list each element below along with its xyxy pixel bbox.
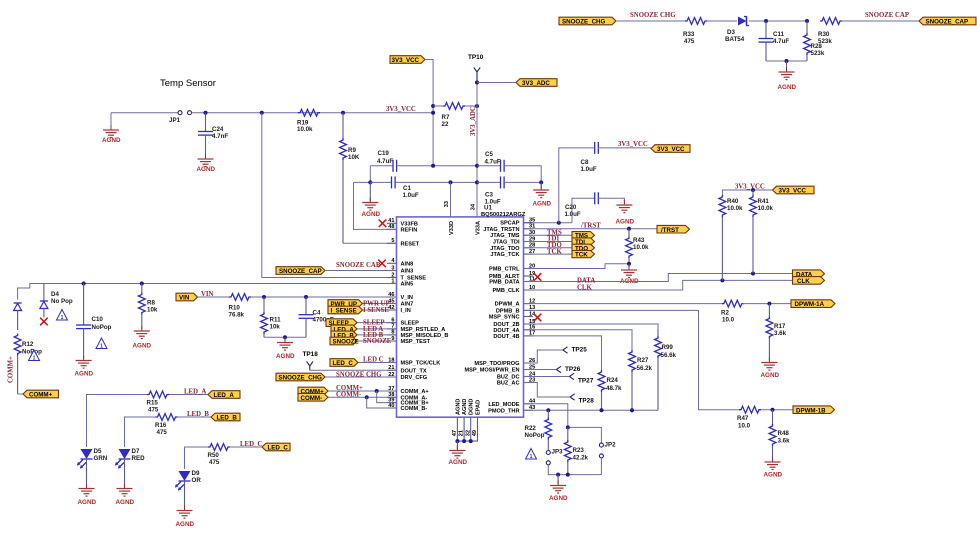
signal label SNOOZE_CHG <box>276 373 325 381</box>
capacitor C11 4.7uF <box>759 21 790 61</box>
svg-text:SNOOZE CHG: SNOOZE CHG <box>336 371 382 378</box>
resistor R30 523k <box>818 18 842 45</box>
svg-text:10.0k: 10.0k <box>297 126 313 133</box>
svg-text:R17: R17 <box>774 323 786 330</box>
ground AGND (R43) <box>620 264 639 285</box>
svg-text:RESET: RESET <box>401 241 420 247</box>
svg-text:AIN8: AIN8 <box>401 261 414 267</box>
ground AGND (D7) <box>116 459 135 507</box>
wire R9 to RESET pin 5 <box>343 242 397 244</box>
wire JTAG_TRSTN pin 31 to /TRST <box>524 228 658 230</box>
svg-text:DPMB_B: DPMB_B <box>496 308 520 314</box>
resistor R7 22 <box>433 103 477 128</box>
resistor R99 56.6k <box>655 329 677 410</box>
wire JTAG_TDI <box>524 241 573 243</box>
svg-text:DOUT_TX: DOUT_TX <box>401 368 427 374</box>
svg-text:AGND: AGND <box>533 201 552 208</box>
svg-text:COMM_B-: COMM_B- <box>401 406 428 412</box>
svg-text:JP3: JP3 <box>552 449 564 456</box>
wire LED_B to U1 <box>357 334 397 336</box>
svg-text:R9: R9 <box>348 147 356 154</box>
svg-text:LED_B: LED_B <box>187 411 209 418</box>
svg-text:10.0: 10.0 <box>722 317 735 324</box>
svg-text:LED_B: LED_B <box>217 415 238 422</box>
svg-text:LED_A: LED_A <box>184 389 206 396</box>
ground AGND (R48) <box>764 457 783 479</box>
signal label TMS <box>572 232 595 240</box>
U1 right pin names <box>464 221 520 415</box>
svg-text:AGND: AGND <box>764 472 783 479</box>
svg-text:SPCAP: SPCAP <box>500 221 520 227</box>
svg-text:SNOOZE_CHG: SNOOZE_CHG <box>562 19 606 26</box>
capacitor C5 4.7uF <box>485 151 505 172</box>
node junction R7 left <box>431 104 435 108</box>
wire SNOOZE_CHG to U1 <box>325 376 397 378</box>
wire LED_C net <box>185 447 209 469</box>
svg-text:AGND: AGND <box>549 495 568 502</box>
capacitor C24 4.7nF <box>198 113 228 154</box>
wire PMOD_THR pin 43 rail <box>524 409 659 411</box>
resistor R8 10k <box>138 284 157 330</box>
svg-text:AGND: AGND <box>133 343 152 350</box>
node junction COMM_A+ branch <box>375 389 379 393</box>
svg-text:523k: 523k <box>818 38 832 45</box>
signal label I_SENSE <box>328 306 363 314</box>
svg-text:V33D: V33D <box>449 221 455 235</box>
wire PMB_CLK pin 10 to CLK label <box>524 280 793 290</box>
svg-text:NoPop: NoPop <box>525 432 545 439</box>
svg-text:3V3_ADC: 3V3_ADC <box>470 106 477 136</box>
note triangle 1 (D4) <box>57 310 68 321</box>
resistor R16 475 <box>155 414 178 436</box>
svg-text:D9: D9 <box>192 470 200 477</box>
wire SPCAP pin 35 <box>524 222 573 224</box>
svg-text:AGND: AGND <box>197 166 216 173</box>
ground AGND (R17) <box>761 358 780 380</box>
node junction AGND tap (C4) <box>283 335 287 339</box>
svg-text:76.8k: 76.8k <box>229 312 245 319</box>
svg-text:3.6k: 3.6k <box>774 330 787 337</box>
svg-text:AGND: AGND <box>462 399 468 415</box>
wire lower row to C1 <box>370 181 391 183</box>
svg-text:AIN7: AIN7 <box>401 302 414 308</box>
svg-text:C1: C1 <box>403 185 411 192</box>
svg-text:LED_A: LED_A <box>214 392 235 399</box>
wire C8 branch up <box>559 148 595 223</box>
svg-text:MSP_TDO/PROG: MSP_TDO/PROG <box>474 361 519 367</box>
wire V33D pin stub <box>450 182 452 217</box>
node junction R23 top tee <box>566 425 570 429</box>
node junction C11 top <box>764 19 768 23</box>
svg-text:PMB_CTRL: PMB_CTRL <box>489 267 520 273</box>
resistor R11 10k <box>261 297 281 337</box>
IC U1 BQ500212ARGZ body <box>397 205 526 418</box>
svg-text:RED: RED <box>132 455 146 462</box>
signal label SNOOZE_CAP top <box>919 17 976 25</box>
wire LED_A to U1 <box>357 328 397 330</box>
svg-text:CLK: CLK <box>577 284 592 291</box>
svg-text:34: 34 <box>471 203 477 210</box>
power label 3V3_VCC (C8) <box>651 145 690 153</box>
svg-text:C19: C19 <box>378 150 390 157</box>
svg-text:C4: C4 <box>313 310 321 317</box>
node junction R24 bottom <box>600 408 604 412</box>
svg-text:SNOOZE_CAP: SNOOZE_CAP <box>279 268 322 275</box>
signal label CLK <box>793 277 825 285</box>
svg-text:TP27: TP27 <box>578 378 594 385</box>
svg-text:R47: R47 <box>737 415 749 422</box>
no-connect X V33FB pin 41 <box>379 220 387 228</box>
svg-text:LED C: LED C <box>363 357 384 364</box>
svg-text:DPWM-1A: DPWM-1A <box>795 301 825 308</box>
wire 3V3_VCC label down to rail <box>425 60 433 166</box>
wire upper row to C5 <box>477 165 501 167</box>
ground AGND (JP1 input) <box>102 113 121 144</box>
svg-text:LED_C: LED_C <box>333 360 354 367</box>
svg-text:AGND: AGND <box>362 211 381 218</box>
capacitor C20 1.0uF <box>565 192 599 218</box>
svg-text:D7: D7 <box>132 448 140 455</box>
svg-text:SNOOZE CAP: SNOOZE CAP <box>336 262 380 269</box>
LED D9 OR <box>175 470 201 491</box>
node junction VCC vert x upper row <box>431 164 435 168</box>
svg-text:4.7uF: 4.7uF <box>485 159 501 166</box>
svg-text:I SENSE: I SENSE <box>363 307 389 314</box>
svg-text:LED_C: LED_C <box>240 441 262 448</box>
node junction R27 bottom <box>630 408 634 412</box>
wire BUZ_DC pin 24 to TP27 <box>524 376 570 378</box>
LED D7 RED <box>115 448 145 469</box>
resistor R41 10.0k <box>750 190 774 274</box>
svg-text:R12: R12 <box>22 341 34 348</box>
svg-text:LED_MODE: LED_MODE <box>488 402 519 408</box>
wire MSP_MOSI/PWR_EN pin 25 to TP26 <box>524 369 557 371</box>
wire R30 to SNOOZE_CAP <box>842 20 919 22</box>
svg-text:R43: R43 <box>633 237 645 244</box>
svg-text:AGND: AGND <box>78 499 97 506</box>
U1 bottom pin numbers <box>452 430 478 436</box>
svg-text:TP10: TP10 <box>468 54 484 61</box>
svg-text:No Pop: No Pop <box>51 298 73 305</box>
wire I_SENSE to U1 <box>363 309 397 311</box>
node junction C4 top <box>304 295 308 299</box>
svg-text:C20: C20 <box>565 204 577 211</box>
wire PWR_UP to U1 <box>363 303 397 305</box>
node junction R7 right on ADC vertical <box>475 104 479 108</box>
svg-text:JP1: JP1 <box>169 117 181 124</box>
svg-text:V33A: V33A <box>476 221 482 235</box>
svg-text:Temp Sensor: Temp Sensor <box>160 78 216 89</box>
wire R15 to LED_A label <box>169 394 208 396</box>
svg-text:TP26: TP26 <box>565 366 581 373</box>
wire AGND to JP1 <box>111 112 178 114</box>
svg-text:R11: R11 <box>270 317 282 324</box>
wire AIN5 pin 1 rail from D4 <box>18 284 397 300</box>
svg-text:475: 475 <box>148 407 159 414</box>
svg-text:VIN: VIN <box>179 295 190 302</box>
signal label DPWM-1A <box>791 300 835 308</box>
svg-text:R15: R15 <box>147 400 159 407</box>
node junction rail end <box>431 111 435 115</box>
svg-text:COMM+: COMM+ <box>29 392 53 399</box>
wire SNOOZE_CHG to R33 <box>616 20 685 22</box>
node junction ADC vert x upper row <box>475 164 479 168</box>
signal label COMM+ <box>298 387 328 395</box>
svg-text:DGND: DGND <box>469 399 475 415</box>
node junction TP10 tap <box>475 81 479 85</box>
svg-text:AGND: AGND <box>761 372 780 379</box>
signal label SNOOZE_CHG top <box>559 17 616 25</box>
wire LED_A net <box>87 395 148 448</box>
svg-text:PMOD_THR: PMOD_THR <box>488 408 519 414</box>
svg-text:SNOOZE CHG: SNOOZE CHG <box>630 12 676 19</box>
svg-text:C10: C10 <box>92 316 104 323</box>
wire 3V3_ADC vertical <box>476 83 478 217</box>
wire JTAG_TDO <box>524 247 573 249</box>
svg-text:GRN: GRN <box>94 455 108 462</box>
svg-text:C5: C5 <box>485 151 493 158</box>
node junction R11 top <box>262 295 266 299</box>
svg-text:JTAG_TRSTN: JTAG_TRSTN <box>483 227 519 233</box>
svg-text:AGND: AGND <box>455 399 461 415</box>
signal label LED_A out <box>208 391 240 399</box>
signal label TDO <box>572 244 595 252</box>
svg-text:475: 475 <box>684 38 695 45</box>
ground AGND (C10) <box>75 356 94 378</box>
signal label TCK <box>572 251 595 259</box>
test point TP25 <box>563 347 587 354</box>
svg-text:PMB_DATA: PMB_DATA <box>489 280 519 286</box>
no-connect X PMB_ALRT pin 19 <box>534 273 542 281</box>
resistor R47 10.0 <box>737 406 761 429</box>
diode D3 BAT54 <box>725 17 749 44</box>
svg-text:R50: R50 <box>208 452 220 459</box>
wire PMB_CTRL pin 20 to R43 bottom <box>524 264 630 269</box>
svg-text:MSP_SYNC: MSP_SYNC <box>489 315 520 321</box>
svg-text:35: 35 <box>529 218 535 224</box>
svg-text:AGND: AGND <box>102 137 121 144</box>
note triangle 1 (R12) <box>29 350 40 361</box>
node junction R17 top <box>767 302 771 306</box>
svg-text:C3: C3 <box>485 192 493 199</box>
svg-text:JTAG_TDI: JTAG_TDI <box>493 240 520 246</box>
ground AGND (D9) <box>176 481 195 529</box>
note triangle 1 (R22) <box>526 449 537 460</box>
svg-text:DOUT_4A: DOUT_4A <box>493 328 519 334</box>
svg-text:JP2: JP2 <box>605 442 617 449</box>
no-connect X AIN8 pin 4 <box>378 260 386 268</box>
svg-text:R7: R7 <box>442 114 450 121</box>
svg-text:R16: R16 <box>155 422 167 429</box>
node junction R22 top <box>546 408 550 412</box>
node junction R41 top <box>751 188 755 192</box>
U1 right pin numbers <box>529 218 536 412</box>
svg-text:D5: D5 <box>94 448 102 455</box>
wire R11 C4 bottom <box>264 336 306 338</box>
svg-text:R8: R8 <box>147 300 155 307</box>
ground AGND (D5) <box>78 459 97 507</box>
wire SLEEP to U1 <box>357 322 397 324</box>
U1 bottom pin names AGND AGND DGND EPAD <box>455 399 481 415</box>
capacitor C3 1.0uF <box>477 176 541 205</box>
resistor R23 42.2k <box>564 427 588 474</box>
svg-text:R30: R30 <box>818 31 830 38</box>
resistor R43 10.0k <box>626 229 649 264</box>
diode D4 dual No Pop <box>14 284 73 331</box>
svg-text:3V3_VCC: 3V3_VCC <box>657 146 685 153</box>
resistor R9 10K pulldown to RESET <box>340 113 360 244</box>
svg-text:10.0: 10.0 <box>738 423 751 430</box>
svg-text:10.0k: 10.0k <box>727 205 743 212</box>
node junction C10 tap <box>82 282 86 286</box>
wire to 3V3_ADC label <box>477 82 516 84</box>
node junction C8 branch <box>557 221 561 225</box>
wire C5 to AGND corner <box>504 166 541 183</box>
svg-text:SNOOZE_CHG: SNOOZE_CHG <box>279 375 323 382</box>
wire REFIN pin 48 from C1 row <box>354 182 397 229</box>
svg-text:C24: C24 <box>212 126 224 133</box>
wire C11 R28 bottom <box>766 60 807 62</box>
svg-text:MSP_TEST: MSP_TEST <box>401 339 431 345</box>
wire C20 branch <box>572 198 595 222</box>
resistor R50 475 <box>208 444 231 466</box>
svg-text:3V3_VCC: 3V3_VCC <box>392 57 420 64</box>
signal label SLEEP <box>326 319 357 327</box>
node junction AGND tap (jumpers) <box>556 473 560 477</box>
svg-text:3V3_VCC: 3V3_VCC <box>735 184 765 191</box>
svg-text:1.0uF: 1.0uF <box>581 166 597 173</box>
node junction R23 bottom <box>566 473 570 477</box>
svg-text:AIN5: AIN5 <box>401 282 414 288</box>
signal label LED_B <box>331 331 357 339</box>
svg-text:MSP_MISOLED_B: MSP_MISOLED_B <box>401 333 449 339</box>
resistor R22 NoPop <box>525 410 552 450</box>
svg-text:D3: D3 <box>727 29 735 36</box>
svg-text:TCK: TCK <box>575 252 588 259</box>
wire decoupling row upper (C19/C5) <box>370 165 393 167</box>
wire JTAG_TMS <box>524 234 573 236</box>
svg-text:COMM+: COMM+ <box>8 356 15 383</box>
svg-text:JTAG_TDO: JTAG_TDO <box>490 246 520 252</box>
signal label COMM+ bottom <box>23 390 59 398</box>
wire R50 to LED_C label <box>230 446 262 448</box>
svg-text:DOUT_4B: DOUT_4B <box>493 334 519 340</box>
svg-text:TCK: TCK <box>547 248 562 255</box>
signal label /TRST <box>657 225 690 233</box>
svg-text:4.7uF: 4.7uF <box>773 38 789 45</box>
ground AGND (snooze) <box>778 61 797 91</box>
svg-text:C11: C11 <box>773 31 785 38</box>
wire DPWM_A pin 12 <box>524 303 724 305</box>
svg-text:1.0uF: 1.0uF <box>403 192 419 199</box>
svg-text:R22: R22 <box>525 425 537 432</box>
wire down to T_SENSE pin 2 <box>262 113 397 278</box>
svg-text:TP28: TP28 <box>579 398 595 405</box>
note triangle 1 (C10) <box>96 338 107 349</box>
jumper JP3 <box>546 449 563 465</box>
wire C8 to 3V3_VCC label <box>598 147 651 149</box>
capacitor C4 4700pF <box>299 297 335 337</box>
node junction V33D tap <box>449 180 453 184</box>
svg-text:R41: R41 <box>758 198 770 205</box>
svg-text:OR: OR <box>192 477 202 484</box>
node junction AGND tap lower row <box>368 180 372 184</box>
ground AGND (C20) <box>616 200 635 226</box>
wire BUZ_AC pin 23 to TP28 <box>524 383 571 398</box>
node junction R8 tap <box>140 282 144 286</box>
svg-text:MSP_TCK/CLK: MSP_TCK/CLK <box>401 361 441 367</box>
U1 top pin names V33D V33A and numbers 33 34 <box>444 201 482 235</box>
resistor R33 475 <box>683 18 707 45</box>
U1 bottom ground stubs <box>457 417 477 441</box>
node junction R28 top <box>805 19 809 23</box>
svg-text:DPWM-1B: DPWM-1B <box>796 407 826 414</box>
resistor R12 NoPop <box>14 334 42 395</box>
wire DOUT_4A pin 16 to R27 <box>524 330 633 350</box>
svg-text:5: 5 <box>391 238 394 244</box>
ground AGND (C5/C3) <box>533 182 552 207</box>
svg-text:10.0k: 10.0k <box>633 244 649 251</box>
svg-text:10k: 10k <box>270 324 281 331</box>
resistor R40 10.0k <box>719 195 743 280</box>
svg-text:AGND: AGND <box>176 521 195 528</box>
svg-text:LED_C: LED_C <box>268 445 289 452</box>
svg-text:475: 475 <box>157 429 168 436</box>
capacitor C8 1.0uF <box>581 142 599 173</box>
node junction vertical to T_SENSE <box>260 111 264 115</box>
svg-text:DPWM_A: DPWM_A <box>495 302 520 308</box>
svg-text:10k: 10k <box>147 307 158 314</box>
node junction C5/C3 AGND <box>539 180 543 184</box>
svg-text:AGND: AGND <box>778 84 797 91</box>
svg-text:R48: R48 <box>778 430 790 437</box>
svg-text:R2: R2 <box>721 310 729 317</box>
svg-text:PMB_CLK: PMB_CLK <box>492 288 519 294</box>
wire DOUT_TX pin 21 <box>310 369 397 371</box>
U1 left pin stubs <box>387 223 397 408</box>
node junctions bottom grounds <box>455 439 472 443</box>
signal label PWR_UP <box>328 300 363 308</box>
svg-text:TP18: TP18 <box>303 351 319 358</box>
node junction R40 bottom on CLK <box>720 278 724 282</box>
wire C20 to AGND <box>598 198 624 203</box>
svg-text:MSP_MOSI/PWR_EN: MSP_MOSI/PWR_EN <box>464 368 519 374</box>
svg-text:AGND: AGND <box>616 219 635 226</box>
svg-text:SNOOZE CAP: SNOOZE CAP <box>865 12 909 19</box>
svg-text:BAT54: BAT54 <box>725 36 745 43</box>
wire JP1 to 3V3 rail <box>192 112 434 114</box>
power label 3V3_VCC (pullups) <box>773 186 815 194</box>
svg-text:33: 33 <box>444 201 450 207</box>
U1 right pin stubs <box>524 223 534 411</box>
wire DOUT_4B pin 17 to R24 <box>524 336 602 370</box>
signal label TDI <box>572 238 595 246</box>
signal label SNOOZE <box>330 337 359 345</box>
svg-text:R23: R23 <box>573 447 585 454</box>
wire LED_B net <box>125 417 156 447</box>
svg-text:1.0uF: 1.0uF <box>565 211 581 218</box>
no-connect X MSP_SYNC pin 14 <box>534 314 542 322</box>
wire LED_MODE pin 44 <box>524 404 602 443</box>
svg-text:SNOOZE: SNOOZE <box>363 338 392 345</box>
svg-text:AGND: AGND <box>276 353 295 360</box>
signal label LED_C out <box>262 443 290 451</box>
node junction R43 bottom <box>627 262 631 266</box>
wire R12 to COMM+ label <box>18 393 23 395</box>
wire AIN3 pin 3 <box>325 270 397 272</box>
node junction R9 tap <box>341 111 345 115</box>
svg-text:R27: R27 <box>637 357 649 364</box>
